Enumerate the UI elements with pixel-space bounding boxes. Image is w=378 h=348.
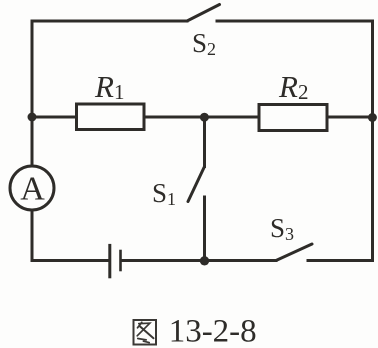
node right junction dot	[368, 113, 377, 122]
switch S3 blade	[276, 244, 312, 261]
wire R1 to R2 through node	[144, 116, 259, 119]
svg-text:S3: S3	[270, 213, 294, 244]
resistor R2 body	[259, 105, 327, 131]
caption hanzi "tu" (figure) drawn as strokes	[134, 320, 157, 345]
svg-text:A: A	[20, 171, 45, 208]
wire R2 to right node	[327, 116, 373, 119]
wire battery to bottom node	[122, 259, 276, 262]
wire middle row: left node to R1	[32, 116, 77, 119]
ammeter A circle	[10, 166, 54, 210]
switch S1 blade	[188, 167, 205, 202]
svg-text:S2: S2	[192, 28, 216, 59]
wire middle branch lower vertical	[203, 197, 206, 261]
node middle junction dot	[200, 113, 209, 122]
battery short plate	[119, 251, 122, 270]
wire left frame upper vertical	[31, 21, 34, 166]
wire top-right horizontal segment	[217, 20, 373, 23]
wire left frame lower vertical	[31, 210, 34, 261]
svg-text:13-2-8: 13-2-8	[169, 314, 257, 348]
switch S2 blade	[187, 5, 220, 22]
svg-text:R1: R1	[94, 69, 124, 104]
wire bottom-right segment	[308, 259, 373, 262]
svg-text:R2: R2	[278, 69, 308, 104]
battery long plate	[108, 245, 111, 276]
node bottom junction dot	[200, 256, 209, 265]
node left junction dot	[28, 113, 37, 122]
wire middle branch upper vertical	[203, 117, 206, 167]
wire right frame vertical	[371, 21, 374, 261]
resistor R1 body	[77, 104, 145, 130]
wire bottom-left segment	[32, 259, 109, 262]
svg-text:S1: S1	[152, 178, 176, 209]
wire top-left horizontal segment	[32, 20, 187, 23]
